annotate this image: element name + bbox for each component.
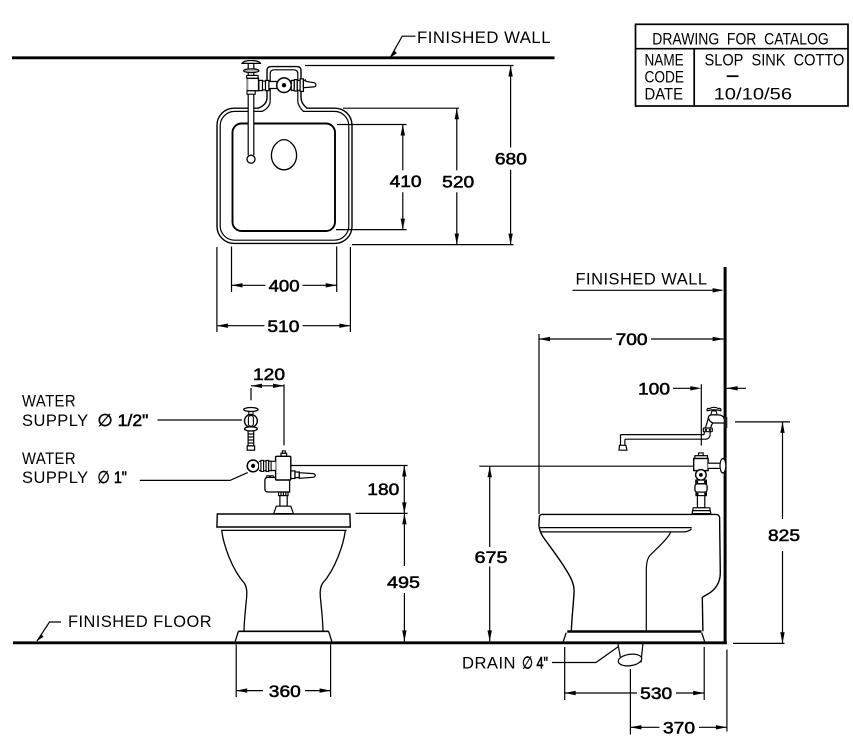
svg-text:FINISHED FLOOR: FINISHED FLOOR: [68, 612, 212, 631]
svg-text:SUPPLY: SUPPLY: [22, 411, 89, 430]
spud box: [265, 477, 290, 492]
spout tube: [621, 434, 705, 436]
dim 825: [782, 422, 784, 519]
svg-text:495: 495: [387, 573, 420, 592]
svg-text:NAME: NAME: [645, 52, 684, 70]
dim 680: vertical dim line with arrows: [510, 66, 512, 148]
faucet neck curves: [704, 418, 708, 435]
dim 410: top extension line (from inner basin): [337, 124, 407, 126]
pipe: [697, 496, 704, 508]
cap and knob: [282, 451, 285, 453]
120-dim centerline ext (right): [283, 384, 285, 445]
faucet valve body on wall: [708, 415, 724, 423]
svg-text:360: 360: [269, 682, 301, 701]
dim 825 top ext: [735, 421, 790, 423]
sink inner basin rect: [233, 124, 336, 232]
finished floor line: [13, 641, 727, 644]
svg-text:100: 100: [638, 379, 670, 398]
sink outer outline with back bump: [217, 67, 352, 244]
svg-text:∅ 1/2": ∅ 1/2": [97, 411, 148, 430]
svg-text:680: 680: [495, 150, 527, 169]
dim 530 ext lines: [564, 647, 566, 700]
dim 360: [236, 690, 263, 692]
ball joint: [696, 470, 707, 481]
dim 675: [489, 466, 491, 547]
handle coupler and handle: [291, 471, 295, 479]
base plate (thick): [567, 630, 701, 632]
flush valve circle: [277, 78, 292, 93]
svg-text:410: 410: [390, 172, 422, 191]
dim 400: extension lines: [231, 247, 233, 293]
coupling ribs right of valve: [291, 80, 294, 90]
tee body: [247, 78, 258, 90]
svg-text:CODE: CODE: [645, 69, 685, 87]
spout packing nut: [703, 428, 712, 432]
dim 495: [403, 513, 405, 566]
finished wall (vertical): [724, 267, 727, 643]
180-dim top extension line from valve: [291, 465, 408, 467]
svg-text:510: 510: [267, 317, 299, 336]
dim 360 extension lines: [235, 645, 237, 698]
pipe down to bowl: [280, 496, 287, 507]
dim 530: [565, 692, 637, 694]
collar: [247, 75, 259, 78]
dim 370: [630, 726, 659, 728]
svg-text:530: 530: [640, 684, 672, 703]
rib ring: [696, 492, 706, 496]
dim 510: extension lines: [216, 247, 218, 332]
dim 510: dim line: [217, 325, 265, 327]
branch pipe to valve: [259, 82, 278, 89]
bell base: [274, 506, 294, 513]
svg-text:DRAIN: DRAIN: [462, 653, 516, 672]
dim 680: top extension line: [305, 65, 514, 67]
handle: [303, 80, 316, 88]
overflow egg hole: [271, 140, 296, 170]
svg-text:400: 400: [269, 277, 300, 296]
barrel: [695, 484, 707, 492]
dim 520: vertical dim line: [456, 108, 458, 170]
svg-text:370: 370: [663, 719, 695, 738]
dim 400: dim line: [232, 284, 266, 286]
leader: FINISHED WALL (top): [390, 36, 415, 57]
dim 410: vertical dim line: [402, 125, 404, 171]
faucet stem: [711, 411, 717, 415]
elbow with supply inlet: [247, 460, 259, 472]
water supply 1/2" stop valve (front view): [244, 408, 258, 412]
sink outer inner-offset outline: [220, 70, 349, 240]
bell base: [692, 508, 711, 514]
675 ext line (valve centre height): [479, 465, 693, 467]
dim 370 ext lines: [629, 669, 631, 735]
finished wall line (top): [12, 56, 555, 59]
supply pipe (vertical, through sink top): [248, 62, 254, 155]
lip sweep line: [541, 529, 692, 532]
shared bottom extension line for 520/680: [352, 244, 514, 246]
svg-text:700: 700: [616, 330, 648, 349]
svg-text:∅ 1": ∅ 1": [97, 468, 127, 487]
rim-top extension line: [356, 512, 408, 514]
svg-text:10/10/56: 10/10/56: [714, 85, 793, 103]
faucet wall flange: [724, 417, 727, 428]
dim 825 bottom ext: [733, 642, 785, 644]
svg-text:825: 825: [768, 526, 800, 545]
coupling: [696, 480, 707, 484]
dim 410: bottom extension line: [336, 229, 407, 231]
lower collar: [247, 91, 255, 94]
faucet cross handle: [707, 407, 721, 410]
pipe outlet circle: [247, 155, 255, 163]
rib ring: [279, 492, 288, 496]
svg-text:FINISHED WALL: FINISHED WALL: [417, 28, 551, 47]
svg-text:SLOP SINK COTTO: SLOP SINK COTTO: [705, 52, 845, 70]
svg-text:520: 520: [442, 173, 474, 192]
bowl interior: [646, 532, 671, 631]
svg-text:FINISHED WALL: FINISHED WALL: [576, 270, 708, 289]
svg-text:DATE: DATE: [645, 86, 684, 104]
svg-text:∅ 4": ∅ 4": [522, 653, 548, 672]
svg-text:WATER: WATER: [22, 449, 76, 468]
rim band line: [540, 527, 692, 529]
coupling ribs left of valve: [259, 80, 263, 90]
dim 520: top extension line: [343, 107, 459, 109]
svg-text:DRAWING FOR CATALOG: DRAWING FOR CATALOG: [652, 31, 829, 49]
wall escutcheon: [242, 61, 260, 64]
valve body: [276, 456, 291, 480]
pipe to wall: [708, 463, 721, 468]
fixture body (side view): [539, 514, 720, 631]
drain pipe below floor: [618, 644, 620, 658]
svg-text:180: 180: [367, 480, 399, 499]
dim 180: [403, 466, 405, 514]
dim 120: [250, 388, 252, 400]
pedestal bowl sides: [222, 531, 247, 631]
svg-text:WATER: WATER: [22, 392, 76, 411]
svg-text:120: 120: [253, 365, 285, 384]
svg-text:SUPPLY: SUPPLY: [22, 468, 89, 487]
svg-text:675: 675: [475, 548, 508, 567]
pedestal rim (front view): [217, 514, 350, 527]
coupling elbow-to-body: [259, 461, 276, 470]
bonnet disc (gray): [244, 69, 259, 73]
dim 700: [538, 334, 540, 514]
pedestal base: [238, 630, 328, 632]
leader: FINISHED FLOOR: [37, 622, 61, 641]
faucet centerline ext: [700, 384, 702, 445]
